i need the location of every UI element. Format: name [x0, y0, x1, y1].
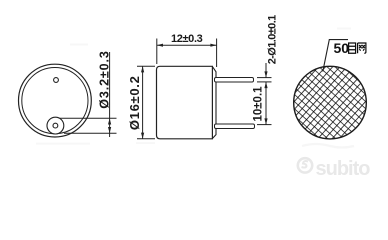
dimension line 12±0.3: [157, 44, 217, 47]
dimension line Ø16±0.2: [141, 66, 144, 139]
dimension line Ø3.2±0.3 vertical: [108, 52, 111, 137]
svg-text:2-Ø1.0±0.1: 2-Ø1.0±0.1: [267, 15, 279, 64]
mesh circle: [294, 66, 367, 139]
dimension Ø16±0.2 extension line top: [137, 65, 155, 67]
glyph 目: [349, 43, 356, 53]
svg-text:12±0.3: 12±0.3: [171, 33, 203, 45]
dimension text 12±0.3: [171, 33, 203, 45]
svg-text:Ø16±0.2: Ø16±0.2: [127, 75, 142, 130]
dimension text Ø16±0.2: [127, 75, 142, 130]
extension line top tangent of hole: [56, 117, 117, 119]
crimp rim right edge: [212, 67, 216, 139]
dimension 12±0.3 extension line right: [216, 39, 218, 68]
bottom hole center dot: [53, 123, 58, 128]
leader line to mesh label: [323, 40, 348, 72]
watermark subito logo circle: [298, 158, 312, 172]
dimension text 2-Ø1.0±0.1: [267, 15, 279, 64]
top pin: [215, 78, 254, 83]
inner rim circle: [22, 68, 88, 134]
pin diameter upper arrow: [264, 63, 267, 78]
dimension text 10±0.1: [252, 86, 264, 122]
dimension line 10±0.1: [264, 82, 267, 125]
dimension 12±0.3 extension line left: [156, 39, 158, 65]
body rectangle: [157, 66, 213, 139]
watermark subito text: [316, 158, 371, 180]
svg-text:Ø3.2±0.3: Ø3.2±0.3: [97, 50, 111, 109]
dimension text Ø3.2±0.3: [97, 50, 111, 109]
pin spacing extension line bottom: [257, 124, 272, 126]
bottom hole outer circle: [47, 117, 64, 134]
faint artifacts: [36, 28, 354, 148]
glyph 网: [358, 43, 366, 53]
extension line bottom tangent of hole: [64, 132, 117, 134]
svg-text:50: 50: [334, 40, 350, 56]
svg-text:subito: subito: [316, 158, 371, 180]
pin diameter extension lines: [257, 78, 272, 82]
label 50目网: [334, 40, 366, 56]
svg-text:10±0.1: 10±0.1: [252, 86, 264, 122]
top small hole: [54, 78, 59, 83]
dimension Ø16±0.2 extension line bottom: [137, 138, 155, 140]
outer can circle: [19, 64, 92, 137]
bottom pin: [215, 124, 255, 129]
